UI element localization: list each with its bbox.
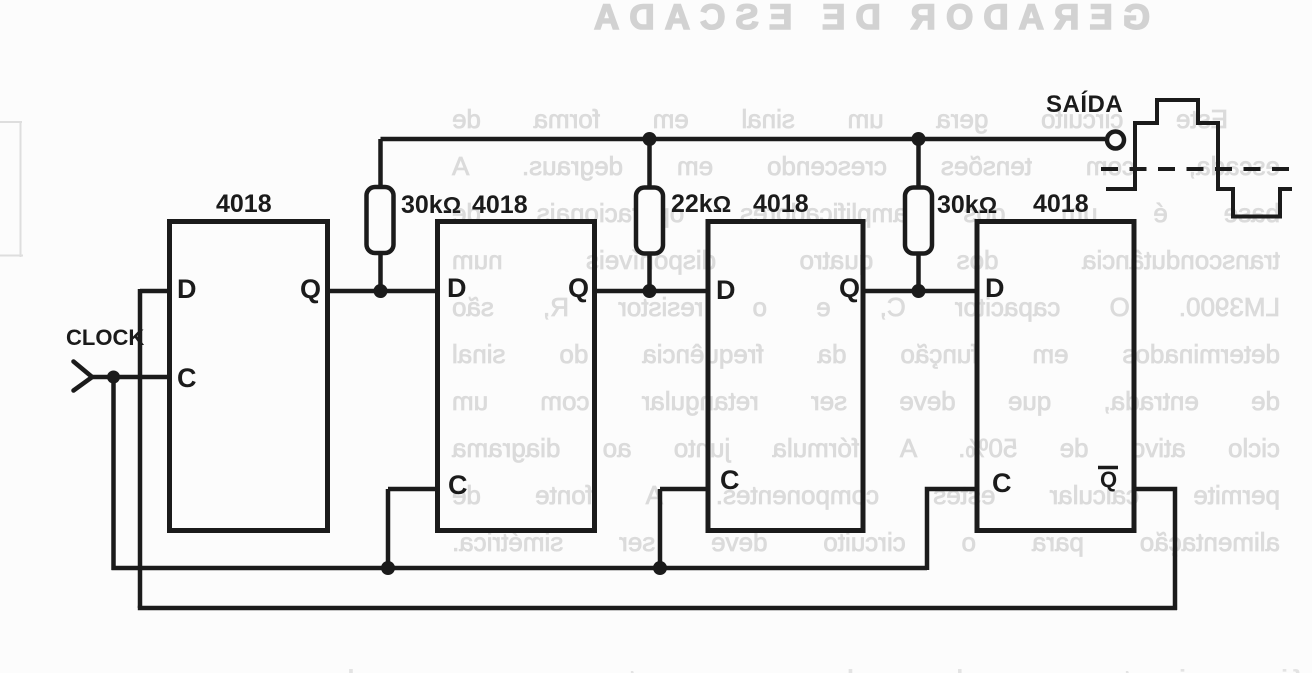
- svg-text:SAÍDA: SAÍDA: [1046, 90, 1123, 118]
- resistor R2 body: [636, 188, 663, 254]
- resistor R1 bottom lead: [378, 252, 383, 291]
- wire C3 stub: [660, 487, 709, 492]
- IC U1 4018 box: [170, 222, 328, 531]
- wire bus1 horizontal: [112, 566, 928, 571]
- junction dot R2 bottom node: [643, 284, 657, 298]
- wire bus2 horizontal: [138, 606, 1177, 611]
- Q-bar overline: [1098, 466, 1118, 470]
- resistor R3 top lead: [916, 139, 921, 189]
- bleed-through bottom cut-off text strip: [252, 664, 1302, 673]
- svg-text:C: C: [720, 465, 740, 495]
- wire C3 vertical: [658, 489, 663, 568]
- svg-text:22kΩ: 22kΩ: [671, 190, 731, 218]
- wire C2 vertical: [386, 489, 391, 568]
- wire Q1 to D2: [328, 289, 437, 294]
- svg-text:Q: Q: [839, 273, 860, 303]
- svg-text:D: D: [716, 275, 736, 305]
- wire Q-bar to feedback: [1134, 489, 1175, 610]
- svg-text:4018: 4018: [753, 190, 809, 218]
- svg-text:D: D: [447, 273, 467, 303]
- clock input chevron: [74, 362, 92, 391]
- staircase waveform: [1106, 100, 1292, 217]
- junction dot R3 bottom node: [912, 284, 926, 298]
- resistor R3 body: [905, 188, 932, 254]
- resistor R3 bottom lead: [916, 252, 921, 291]
- svg-text:CLOCK: CLOCK: [66, 325, 144, 350]
- resistor R2 bottom lead: [647, 252, 652, 291]
- junction dot bus1 C2 tap: [381, 561, 395, 575]
- svg-text:D: D: [177, 274, 197, 304]
- svg-text:4018: 4018: [1033, 190, 1089, 218]
- junction dot clock node: [107, 371, 120, 384]
- junction dot R2 top node: [643, 132, 657, 146]
- output terminal circle: [1107, 132, 1124, 149]
- svg-text:30kΩ: 30kΩ: [401, 191, 461, 219]
- resistor R1 body: [367, 187, 394, 253]
- wire Q3 to D4: [862, 289, 978, 294]
- wire C4 riser: [927, 489, 977, 570]
- wire C2 stub: [388, 487, 437, 492]
- svg-text:Q: Q: [300, 274, 321, 304]
- IC U3 4018 box: [708, 222, 863, 531]
- svg-text:30kΩ: 30kΩ: [937, 191, 997, 219]
- junction dot R3 top node: [912, 132, 926, 146]
- svg-text:4018: 4018: [472, 191, 528, 219]
- junction dot R1 bottom node: [374, 284, 388, 298]
- waveform dashed baseline: [1101, 167, 1296, 171]
- resistor R1 top lead: [378, 139, 383, 188]
- svg-text:4018: 4018: [216, 190, 272, 218]
- bleed-through headline (mirrored) GERADOR DE ESCADA: [594, 0, 1150, 37]
- svg-text:C: C: [448, 470, 468, 500]
- top output wire: [381, 137, 1106, 142]
- wire clock to C1: [90, 375, 168, 380]
- svg-text:Q: Q: [1100, 467, 1117, 492]
- svg-text:D: D: [985, 273, 1005, 303]
- wire Q2 to D3: [594, 289, 709, 294]
- svg-text:C: C: [177, 363, 197, 393]
- IC U4 4018 box: [977, 222, 1134, 531]
- svg-text:GERADOR DE ESCADA: GERADOR DE ESCADA: [594, 0, 1150, 37]
- wire D1 stub: [140, 289, 168, 294]
- bleed-through paragraph (mirrored): [452, 96, 1280, 566]
- IC U2 4018 box: [438, 222, 595, 531]
- svg-text:figura junto com valores de co: figura junto com valores de componentes …: [252, 664, 1302, 673]
- wire feedback vertical at x=140: [138, 289, 143, 608]
- resistor R2 top lead: [647, 139, 652, 189]
- junction dot bus1 C3 tap: [653, 561, 667, 575]
- svg-text:Q: Q: [568, 273, 589, 303]
- bleed-through box corner at left edge: [0, 121, 23, 257]
- wire clock vertical at x=113.5: [111, 377, 116, 570]
- svg-text:C: C: [992, 468, 1012, 498]
